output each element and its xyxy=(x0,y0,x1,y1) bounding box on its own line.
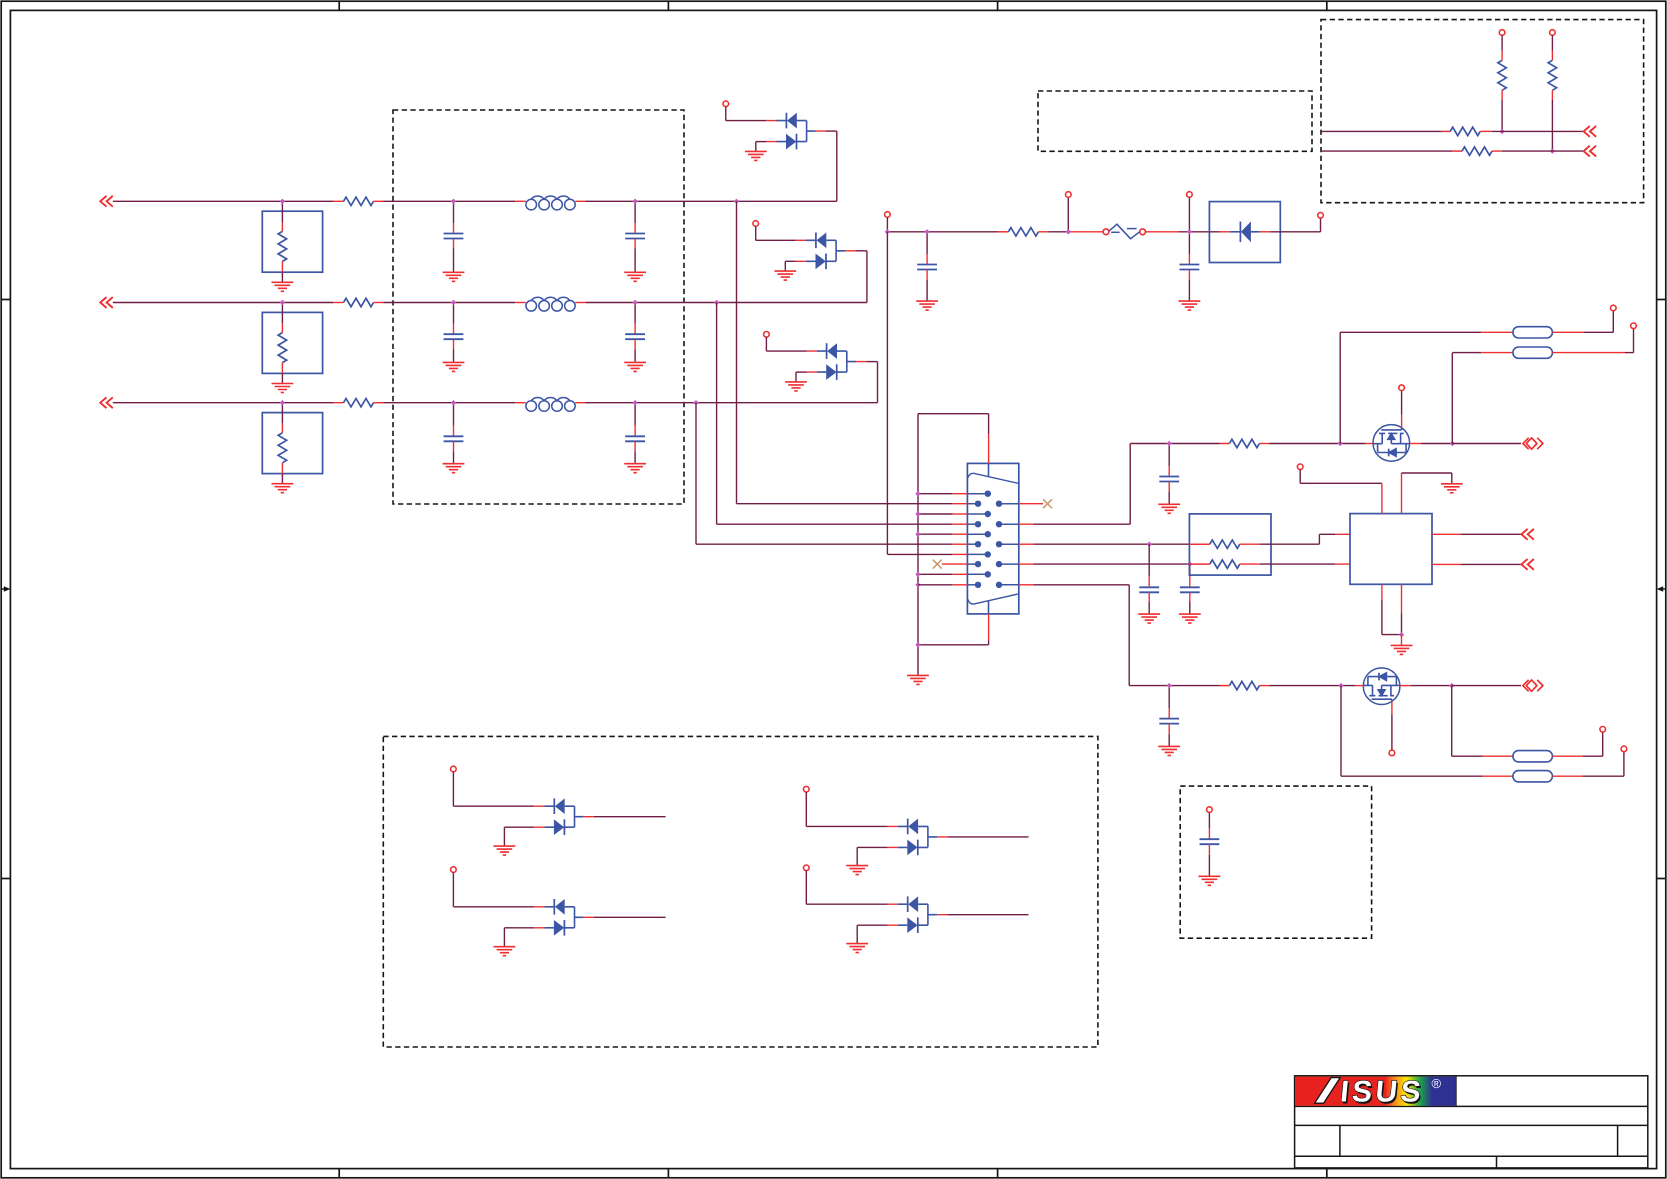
svg-text:ISUS: ISUS xyxy=(1339,1076,1426,1109)
svg-text:®: ® xyxy=(1432,1076,1442,1091)
